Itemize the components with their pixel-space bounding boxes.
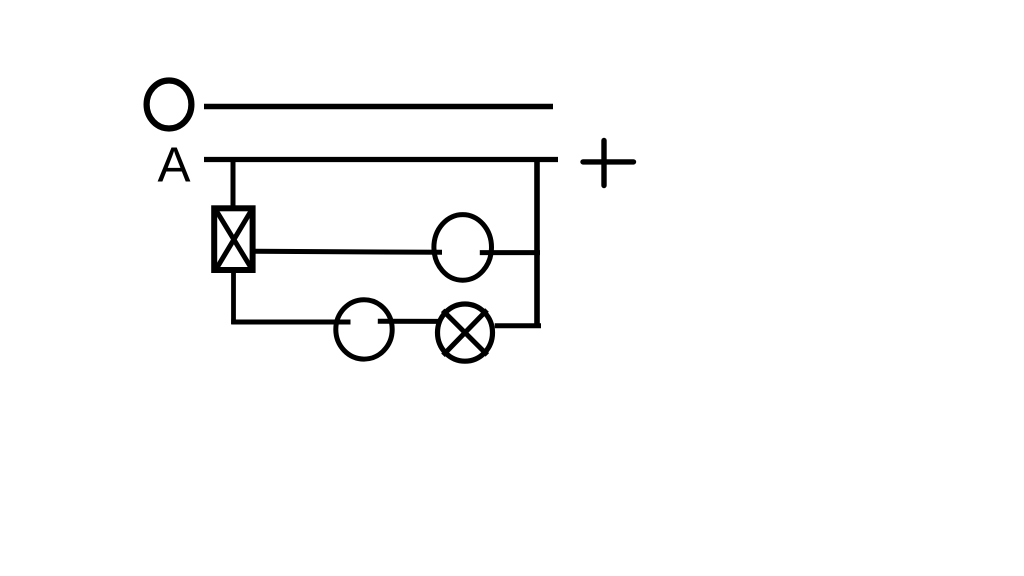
wire (fuse output to meter M1)	[255, 251, 442, 252]
wire (right vertical bus)	[534, 160, 540, 327]
wire (meter M1 to right bus)	[480, 250, 540, 255]
svg-text:A: A	[158, 138, 191, 193]
wire (fuse bottom drop)	[231, 270, 236, 324]
wire (second horizontal bus)	[204, 157, 558, 162]
meter M1 (circle, upper branch)	[434, 215, 492, 281]
meter M2 (circle, lower branch)	[336, 300, 392, 359]
wire (top horizontal)	[204, 104, 553, 109]
fuse F1 (box with X)	[214, 208, 252, 270]
wire (bottom horizontal to meter M2)	[231, 320, 350, 325]
plus symbol (positive supply mark)	[583, 141, 634, 186]
wire (left vertical drop from bus to fuse)	[231, 160, 236, 207]
lamp L1 (circle with X)	[438, 304, 493, 361]
terminal circle (top-left)	[147, 81, 192, 129]
wire (lamp to right bus, bottom right)	[495, 323, 541, 328]
wire (meter M2 to lamp)	[378, 319, 438, 324]
